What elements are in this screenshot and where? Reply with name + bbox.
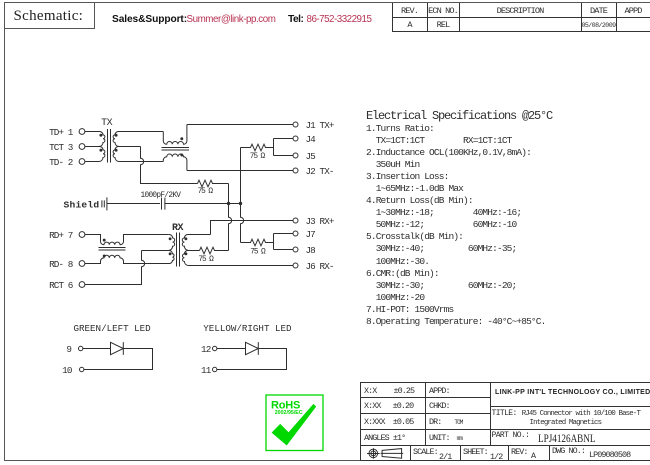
shield terminal: [64, 197, 107, 210]
svg-text:J8: J8: [306, 245, 316, 256]
choke L2 core: [99, 248, 126, 251]
pin J2 TX-: [293, 166, 334, 177]
wire vertical A with hop: [229, 184, 232, 251]
pin TD+ 1: [49, 127, 85, 138]
column lines: [425, 382, 426, 445]
svg-text:TX: TX: [101, 118, 113, 129]
svg-text:75 Ω: 75 Ω: [250, 248, 266, 256]
resistor R3 75ohm: [198, 247, 228, 264]
wire J7/J8 bracket: [274, 234, 294, 250]
texts: [364, 386, 414, 396]
svg-text:RD+ 7: RD+ 7: [49, 230, 73, 241]
wire RCT vertical with hop: [85, 251, 145, 285]
svg-text:TCT 3: TCT 3: [49, 142, 73, 153]
choke L1 phase dots: [180, 137, 183, 156]
electrical specifications text: [366, 109, 552, 123]
svg-text:GREEN/LEFT LED: GREEN/LEFT LED: [74, 323, 152, 334]
svg-text:1000pF/2KV: 1000pF/2KV: [141, 192, 182, 200]
pin TD- 2: [49, 157, 85, 168]
choke L2 bottom winding: [85, 255, 170, 263]
choke L2 phase dots: [103, 239, 106, 258]
junction node A: [227, 202, 230, 205]
pin 10: [62, 365, 84, 376]
LED D1 green: [83, 342, 123, 355]
svg-text:9: 9: [66, 344, 71, 355]
svg-text:YELLOW/RIGHT LED: YELLOW/RIGHT LED: [203, 323, 292, 334]
transformer T1 core: [108, 129, 111, 163]
pin 9: [66, 344, 83, 355]
title block: [360, 382, 650, 460]
revision table: [392, 3, 650, 31]
pin J5: [293, 151, 315, 162]
wire shield line left: [107, 203, 160, 205]
svg-text:75 Ω: 75 Ω: [250, 153, 266, 161]
choke L1 bottom winding: [163, 154, 187, 171]
wire to J2: [187, 170, 293, 172]
svg-text:J2 TX-: J2 TX-: [306, 166, 334, 177]
svg-text:75 Ω: 75 Ω: [198, 188, 214, 196]
svg-text:J1 TX+: J1 TX+: [306, 120, 335, 131]
svg-text:TD- 2: TD- 2: [49, 157, 73, 168]
pin RD- 8: [49, 259, 85, 270]
svg-text:75 Ω: 75 Ω: [198, 256, 214, 264]
resistor R2 75ohm: [241, 144, 274, 161]
pin 12: [201, 344, 217, 355]
wire to J1: [187, 124, 293, 126]
pin J8: [293, 245, 315, 256]
svg-text:10: 10: [62, 365, 72, 376]
pin J4: [293, 134, 316, 145]
svg-text:Shield: Shield: [64, 200, 100, 211]
transformer T1 phase dots: [99, 134, 117, 152]
pin J1 TX+: [293, 120, 335, 131]
transformer T2 core: [177, 233, 180, 267]
junction node B: [239, 202, 242, 205]
svg-text:2002/95/EC: 2002/95/EC: [275, 410, 303, 416]
transformer T2 phase dots: [169, 237, 188, 255]
schematic title box: [4, 2, 95, 29]
svg-text:J5: J5: [306, 151, 316, 162]
pin TCT 3: [49, 142, 85, 153]
transformer T2 primary winding: [126, 234, 175, 263]
choke L1 core: [162, 148, 190, 151]
wire LED D1 loop: [84, 349, 153, 370]
wire to J3 with jog: [211, 221, 294, 235]
transformer T2 secondary winding: [182, 234, 293, 265]
projection symbol: [367, 448, 403, 458]
row lines left section: [360, 397, 490, 398]
wire TX center tap with hop: [141, 147, 198, 184]
svg-text:J7: J7: [306, 229, 316, 240]
pin 11: [201, 365, 217, 376]
transformer T1 primary winding: [85, 132, 105, 162]
choke L1 top winding: [163, 125, 187, 145]
svg-text:RD- 8: RD- 8: [49, 259, 73, 270]
svg-text:J3 RX+: J3 RX+: [306, 216, 335, 227]
wire vertical B with hop: [241, 148, 244, 243]
pin J6 RX-: [293, 261, 334, 272]
resistor R1 75ohm: [198, 180, 229, 196]
transformer T1 secondary winding: [113, 132, 163, 162]
svg-text:RCT 6: RCT 6: [49, 280, 73, 291]
svg-text:11: 11: [201, 365, 212, 376]
svg-text:J6 RX-: J6 RX-: [306, 261, 334, 272]
pin J3 RX+: [293, 216, 335, 227]
pin RD+ 7: [49, 230, 85, 241]
wire J4/J5 bracket: [274, 139, 294, 156]
svg-text:J4: J4: [306, 134, 317, 145]
LED D2 yellow: [217, 342, 258, 355]
svg-text:12: 12: [201, 344, 211, 355]
capacitor C1 1000pF/2KV: [141, 192, 182, 209]
svg-text:RX: RX: [172, 223, 184, 234]
pin RCT 6: [49, 280, 85, 291]
wire LED D2 loop: [217, 349, 287, 370]
RoHS logo: [266, 395, 323, 451]
svg-text:TD+ 1: TD+ 1: [49, 127, 74, 138]
pin J7: [293, 229, 315, 240]
wire shield line right: [165, 203, 241, 205]
sales support header: [112, 14, 187, 25]
resistor R4 75ohm: [241, 239, 274, 256]
bottom row dividers: [410, 445, 411, 461]
choke L2 top winding: [85, 235, 169, 245]
